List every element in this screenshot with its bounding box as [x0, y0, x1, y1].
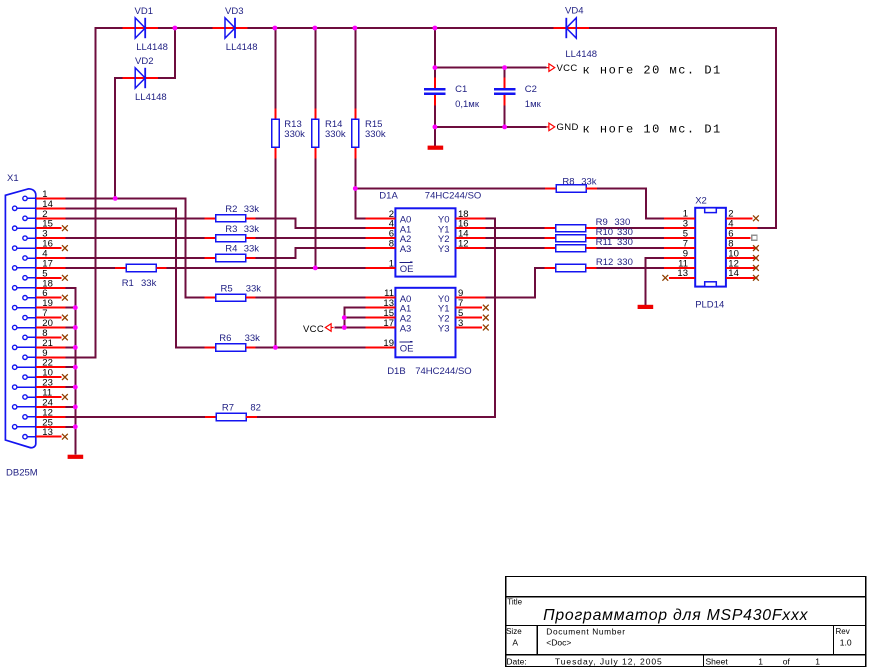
wire X1 pin20 to ground bus [65, 327, 75, 329]
junction R14 net / D1A OE [313, 266, 318, 271]
junction VD2 cathode / rail [173, 26, 178, 31]
junction ground bus at X1 pin 20 [73, 325, 78, 330]
connector X1 (DB25M) body [5, 189, 35, 448]
svg-text:8: 8 [389, 239, 394, 250]
svg-text:330: 330 [617, 257, 633, 268]
svg-text:<Doc>: <Doc> [546, 637, 571, 647]
resistor R15 (330k) [352, 108, 386, 158]
junction R13 / rail [273, 26, 278, 31]
wire R8 to X2 pin 1 [597, 189, 664, 219]
wire X2 pin 9 to ground [646, 258, 664, 305]
svg-text:R8: R8 [562, 176, 574, 187]
wire GND node to GND port [435, 126, 547, 128]
svg-text:R4: R4 [225, 244, 237, 255]
svg-text:1мк: 1мк [525, 99, 542, 110]
wire R4 to D1A A3 [256, 248, 366, 258]
svg-text:1: 1 [389, 258, 394, 269]
svg-text:Y3: Y3 [438, 324, 450, 335]
svg-text:R12: R12 [596, 257, 613, 268]
capacitor C2 (1мк) [494, 78, 542, 111]
svg-text:VCC: VCC [303, 324, 324, 335]
diode VD4 (LL4148) [554, 5, 598, 60]
wire X1 pin4 to R4 [65, 257, 204, 259]
wire VD2 cathode up to rail [157, 28, 176, 78]
no-connect X1 pin 5 [62, 275, 68, 281]
junction ground bus at X1 pin 22 [73, 365, 78, 370]
wire C1 bottom to GND node and ground [434, 105, 436, 145]
svg-text:82: 82 [250, 402, 261, 413]
svg-text:VD2: VD2 [135, 56, 153, 67]
wire X1 pin23 to ground bus [65, 386, 75, 388]
junction VCC node at C2 [502, 65, 507, 70]
wire X1 pin3 to R3 [65, 237, 204, 239]
port VCC (off-page arrow) [546, 64, 554, 72]
capacitor C1 (0,1мк) [424, 78, 480, 111]
title block texts [506, 598, 852, 667]
wire D1A Y3 to R11 [486, 247, 545, 249]
no-connect X1 pin 7 [62, 315, 68, 321]
svg-text:330k: 330k [325, 129, 346, 140]
junction ground bus at X1 pin 23 [73, 385, 78, 390]
junction R14 / rail [313, 26, 318, 31]
resistor R4 (33k) [205, 244, 260, 262]
svg-text:1: 1 [758, 656, 763, 666]
svg-text:330: 330 [617, 237, 633, 248]
resistor R7 (82) [205, 402, 261, 420]
svg-text:VCC: VCC [557, 63, 578, 74]
wire X1 pin19 to ground bus [65, 307, 75, 309]
svg-text:0,1мк: 0,1мк [455, 99, 480, 110]
wire VCC branch up to D1B A1 [344, 308, 365, 328]
IC D1A 74HC244/SO buffer [365, 208, 485, 276]
junction ground bus at X1 pin 19 [73, 305, 78, 310]
svg-text:GND: GND [557, 122, 579, 133]
diode VD3 (LL4148) [212, 6, 257, 53]
svg-text:C1: C1 [455, 84, 467, 95]
no-connect X2 pin 14 [753, 275, 759, 281]
resistor R2 (33k) [205, 204, 260, 222]
svg-text:A3: A3 [400, 324, 412, 335]
svg-text:Document Number: Document Number [546, 626, 625, 636]
svg-text:C2: C2 [525, 84, 537, 95]
wire X1 pin18 ground bus [65, 288, 75, 455]
svg-text:X2: X2 [695, 196, 707, 207]
wire X1 pin12 to R7 [65, 416, 205, 418]
svg-text:VD3: VD3 [225, 6, 243, 17]
wire R6 to D1B OE [256, 346, 366, 348]
wire R13 bottom down to D1B OE net [274, 158, 276, 347]
svg-text:33k: 33k [245, 333, 261, 344]
wire R3 to D1A A2 [256, 237, 366, 239]
resistor R10 (330) [545, 227, 633, 242]
X1 pin numbers [42, 189, 53, 438]
wire X1 pin24 to ground bus [65, 406, 75, 408]
D1B pin numbers [383, 288, 463, 349]
wire R9 to X2 pin 3 [597, 227, 664, 229]
svg-text:D1B: D1B [387, 366, 405, 377]
no-connect X1 pin 10 [62, 374, 68, 380]
wire VCC node down to C2 top [504, 68, 506, 78]
svg-text:17: 17 [383, 318, 394, 329]
ground below C1 [428, 146, 444, 150]
IC D1B 74HC244/SO buffer [365, 288, 485, 358]
resistor R12 (330) [545, 257, 633, 271]
junction ground bus at X1 pin 24 [73, 405, 78, 410]
wire D1B Y0 up to R12 [486, 268, 545, 298]
wire X1 pin2 to R2 [65, 217, 204, 219]
wire X1 pin17 to R1 [65, 267, 115, 269]
wire D1A Y2 to R10 [486, 237, 545, 239]
title block frame [506, 576, 866, 666]
wire R10 to X2 pin 5 [597, 237, 664, 239]
resistor R1 (33k) [115, 264, 167, 289]
wire X1 pin22 to ground bus [65, 366, 75, 368]
port GND (off-page arrow) [546, 123, 554, 131]
svg-text:LL4148: LL4148 [136, 42, 168, 53]
svg-text:OE: OE [400, 264, 414, 275]
wire X1 pin25 to ground bus [65, 426, 75, 428]
svg-text:13: 13 [677, 268, 688, 279]
svg-text:к ноге 20 мс. D1: к ноге 20 мс. D1 [583, 63, 722, 77]
wire rail down to R15 [354, 28, 356, 108]
X2 pin numbers [677, 209, 738, 280]
diode VD1 (LL4148) [123, 6, 168, 53]
wire VCC node to VCC port [435, 67, 547, 69]
no-connect D1B Y3 [483, 325, 489, 331]
svg-text:R7: R7 [222, 402, 234, 413]
svg-text:19: 19 [383, 338, 394, 349]
junction GND node at C2 [502, 125, 507, 130]
wire rail down to R14 [314, 28, 316, 108]
wire R5 to D1B A0 [256, 297, 366, 299]
svg-text:Title: Title [507, 598, 522, 607]
svg-text:Y3: Y3 [438, 244, 450, 255]
svg-text:33k: 33k [246, 283, 262, 294]
wire rail down to VCC node and C1 top [434, 28, 436, 78]
svg-text:A3: A3 [400, 244, 412, 255]
wire R15 bottom down to D1A A0 [355, 158, 365, 218]
wire R11 to X2 pin 7 [597, 247, 664, 249]
junction ground bus at X1 pin 21 [73, 345, 78, 350]
svg-text:14: 14 [728, 268, 739, 279]
junction VCC at D1B A3 [342, 325, 347, 330]
resistor R5 (33k) [205, 283, 262, 301]
wire VCC branch to D1B A2 [344, 317, 365, 319]
junction R15 / rail [353, 26, 358, 31]
svg-text:R3: R3 [225, 224, 237, 235]
junction X1 pin1 / VD2 [113, 196, 118, 201]
svg-text:1: 1 [815, 656, 820, 666]
port VCC at D1B (off-page arrow) [325, 324, 333, 332]
diode VD2 (LL4148) [123, 56, 167, 103]
wire VD3 cathode along rail to VD4 cathode [246, 27, 554, 29]
resistor R3 (33k) [205, 224, 260, 242]
svg-text:Date:: Date: [506, 656, 526, 666]
no-connect X1 pin 15 [62, 225, 68, 231]
svg-text:Sheet: Sheet [706, 656, 729, 666]
junction VCC at D1B A2 [342, 315, 347, 320]
svg-text:LL4148: LL4148 [565, 49, 597, 60]
wire X1 pin9 up-left to VD1 anode [65, 28, 122, 357]
no-connect X1 pin 6 [62, 295, 68, 301]
no-connect X1 pin 8 [62, 335, 68, 341]
svg-text:1.0: 1.0 [840, 637, 852, 647]
svg-text:Rev: Rev [836, 627, 850, 636]
no-connect X2 pin 10 [753, 255, 759, 261]
X1 pin stubs [36, 198, 66, 436]
wire R12 to X2 pin 11 [597, 267, 664, 269]
no-connect X1 pin 13 [62, 434, 68, 440]
no-connect X2 pin 2 [753, 215, 759, 221]
wire VD1 cathode to VD3 anode [157, 27, 214, 29]
wire VCC port to D1B A3 [334, 327, 365, 329]
resistor R8 (33k) [545, 176, 597, 192]
svg-text:74HC244/SO: 74HC244/SO [425, 190, 482, 201]
wire X1 pin1 to R5 [65, 198, 204, 297]
wire R7 up to D1A Y0 [257, 218, 495, 417]
svg-text:33k: 33k [244, 204, 260, 215]
connector X2 (PLD14) body [664, 208, 758, 287]
no-connect X2 pin 12 [753, 265, 759, 271]
wire R14 bottom down to D1A OE net [314, 158, 316, 268]
junction VCC node at C1 [433, 65, 438, 70]
svg-text:Size: Size [506, 627, 522, 636]
svg-text:3: 3 [458, 318, 463, 329]
svg-text:X1: X1 [7, 173, 19, 184]
svg-text:D1A: D1A [379, 190, 398, 201]
svg-text:R2: R2 [225, 204, 237, 215]
wire X1 pin14 to R6 [65, 208, 204, 347]
svg-text:VD4: VD4 [565, 5, 583, 16]
no-connect X2 pin 8 [753, 245, 759, 251]
wire C2 bottom to GND node [504, 105, 506, 127]
svg-text:12: 12 [458, 239, 469, 250]
no-connect D1B Y2 [483, 315, 489, 321]
ground below X1 [68, 455, 84, 459]
wire R2 to D1A A1 [256, 218, 366, 228]
no-connect X1 pin 11 [62, 394, 68, 400]
svg-text:330k: 330k [284, 129, 305, 140]
svg-text:LL4148: LL4148 [135, 92, 167, 103]
wire X1 pin1 node up to VD2 anode [115, 78, 123, 198]
junction C1 branch / rail [433, 26, 438, 31]
wire rail down to R13 [274, 28, 276, 108]
svg-text:330k: 330k [365, 129, 386, 140]
D1A pin numbers [389, 209, 469, 270]
no-connect X2 pin 13 [662, 275, 668, 281]
wire A0 node to R8 [355, 188, 545, 190]
junction GND node at C1 [433, 125, 438, 130]
svg-text:33k: 33k [244, 224, 260, 235]
svg-text:Программатор для MSP430Fxxx: Программатор для MSP430Fxxx [543, 607, 809, 624]
svg-text:33k: 33k [244, 244, 260, 255]
svg-text:R5: R5 [221, 283, 233, 294]
ground at X2 pin 9 [638, 305, 654, 309]
svg-text:DB25M: DB25M [6, 468, 38, 479]
resistor R13 (330k) [272, 108, 305, 158]
svg-text:A: A [512, 637, 518, 647]
unconnected marker X2 pin 6 [752, 235, 757, 240]
svg-text:of: of [783, 656, 791, 666]
svg-text:к ноге 10 мс. D1: к ноге 10 мс. D1 [583, 123, 722, 137]
wire X1 pin21 to ground bus [65, 346, 75, 348]
resistor R14 (330k) [312, 108, 346, 158]
svg-text:74HC244/SO: 74HC244/SO [415, 366, 472, 377]
wire R1 to D1A OE [167, 267, 366, 269]
resistor R9 (330) [545, 217, 631, 232]
svg-text:Tuesday, July 12, 2005: Tuesday, July 12, 2005 [555, 656, 663, 666]
svg-text:R11: R11 [596, 237, 613, 248]
junction R15 net / R8 [353, 186, 358, 191]
junction ground bus at X1 pin 25 [73, 424, 78, 429]
svg-text:PLD14: PLD14 [695, 299, 724, 310]
junction R13 net / D1B OE [273, 345, 278, 350]
wire D1A Y1 to R9 [486, 227, 545, 229]
svg-text:R6: R6 [219, 333, 231, 344]
svg-text:VD1: VD1 [135, 6, 153, 17]
resistor R6 (33k) [205, 333, 261, 351]
wire VD4 anode to X2 pin 4 [589, 28, 776, 228]
resistor R11 (330) [545, 237, 633, 252]
svg-text:OE: OE [400, 344, 414, 355]
no-connect X1 pin 16 [62, 245, 68, 251]
svg-text:R1: R1 [122, 278, 134, 289]
no-connect D1B Y1 [483, 305, 489, 311]
svg-text:LL4148: LL4148 [226, 42, 258, 53]
svg-text:33k: 33k [141, 278, 157, 289]
svg-text:33k: 33k [581, 176, 597, 187]
